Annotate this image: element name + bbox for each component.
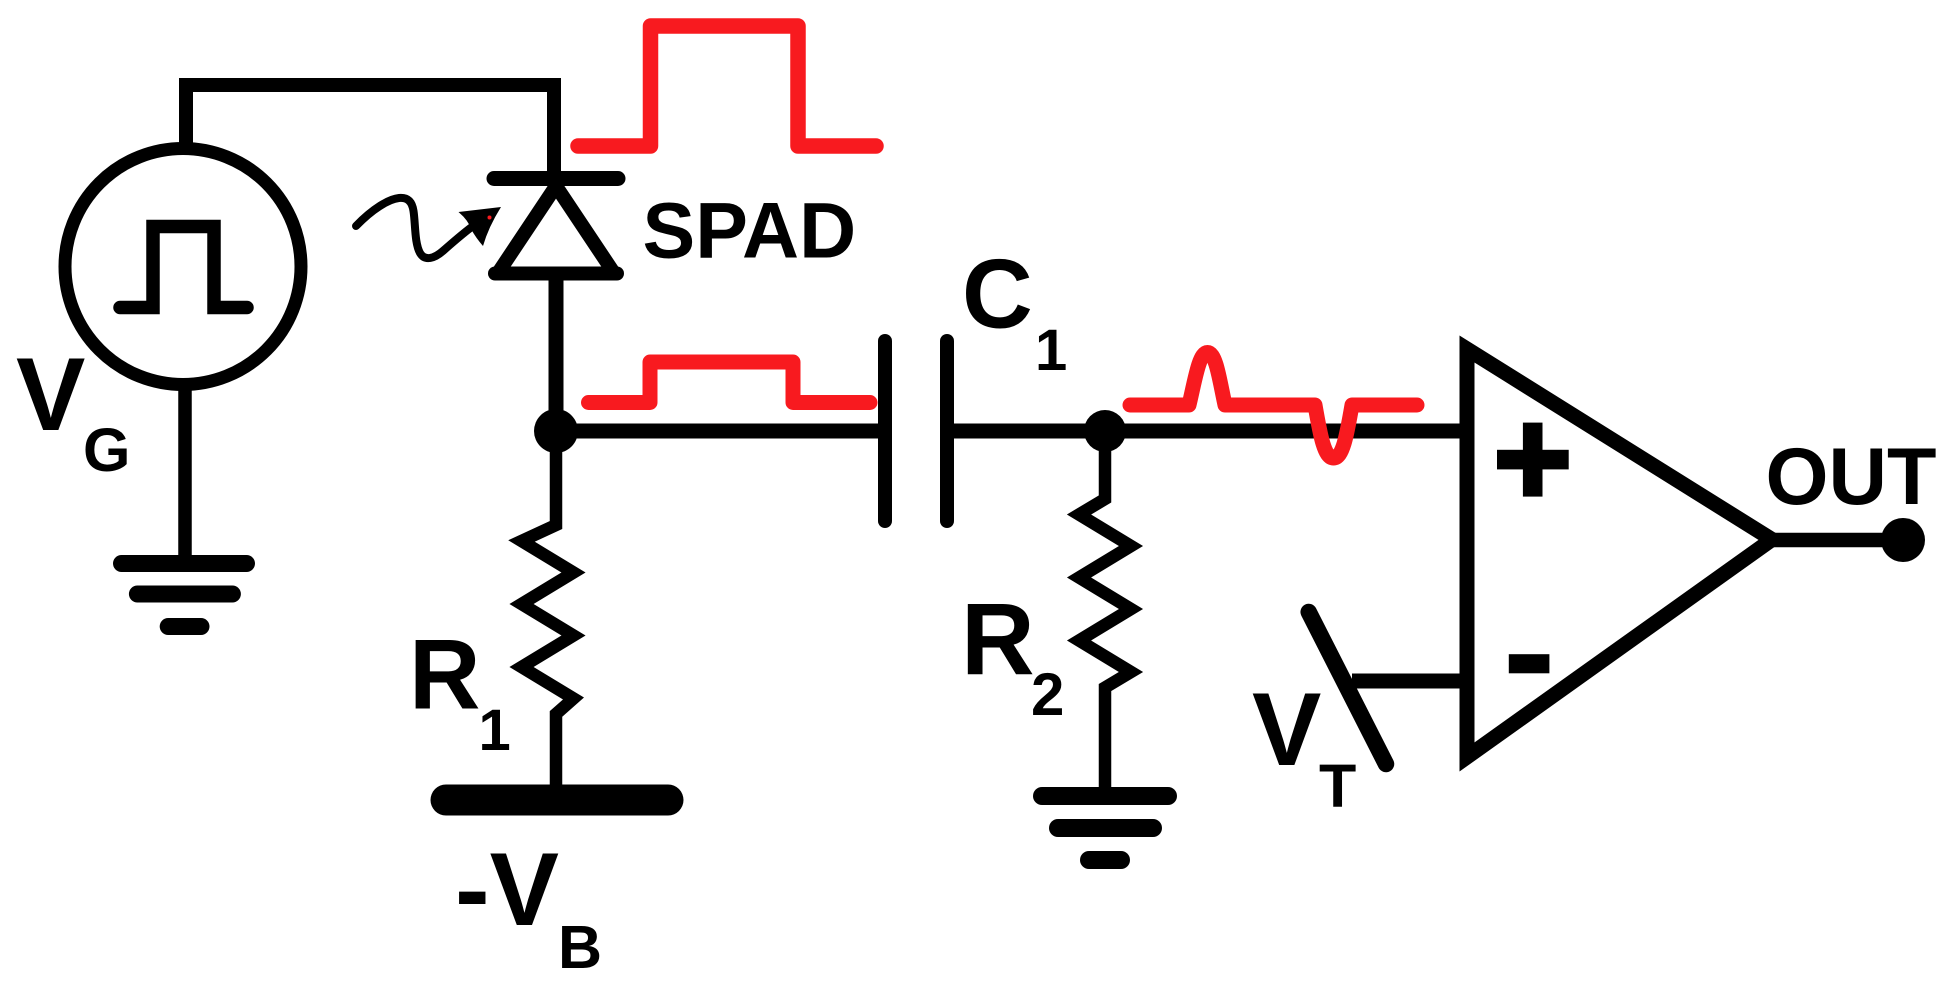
svg-text:V: V	[16, 337, 85, 453]
svg-text:G: G	[83, 416, 130, 484]
svg-text:OUT: OUT	[1766, 432, 1937, 522]
svg-text:SPAD: SPAD	[643, 186, 857, 275]
svg-text:V: V	[1252, 672, 1321, 788]
svg-text:1: 1	[1035, 318, 1067, 383]
svg-text:R: R	[409, 619, 481, 730]
svg-text:T: T	[1319, 752, 1356, 820]
svg-text:-V: -V	[455, 832, 559, 948]
svg-text:C: C	[962, 239, 1033, 349]
svg-text:1: 1	[479, 698, 511, 763]
svg-text:2: 2	[1031, 661, 1064, 728]
svg-text:B: B	[558, 913, 602, 981]
svg-text:R: R	[961, 582, 1035, 696]
